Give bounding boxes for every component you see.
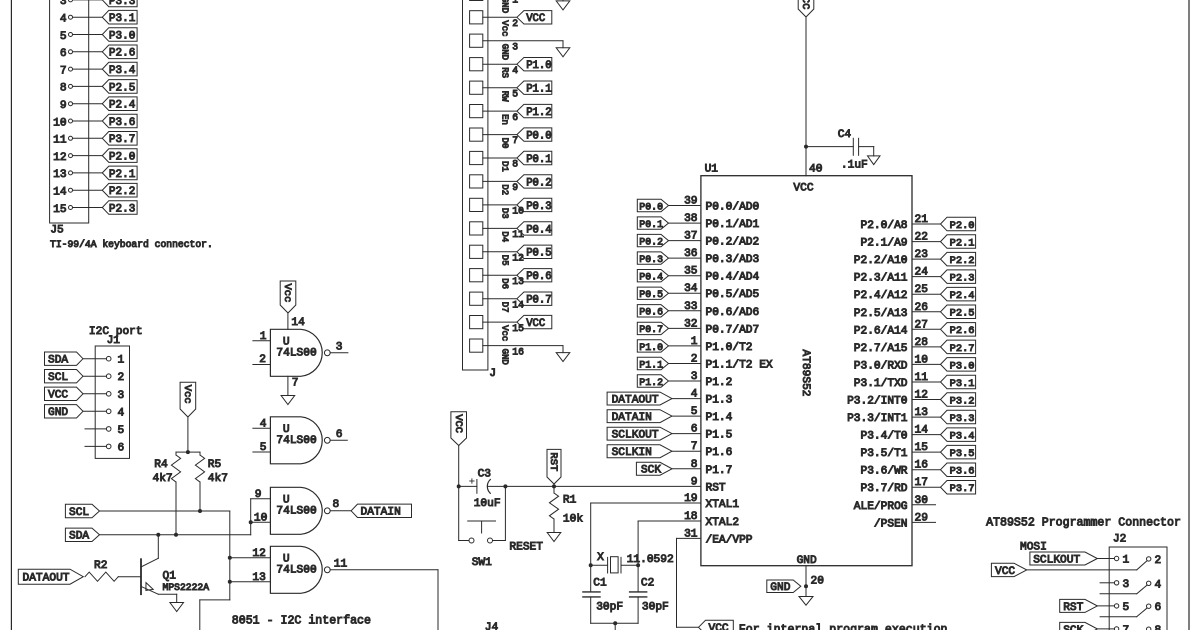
svg-text:P3.7: P3.7 xyxy=(109,134,135,146)
svg-text:3: 3 xyxy=(512,42,518,53)
svg-text:SCLKOUT: SCLKOUT xyxy=(1033,554,1080,566)
svg-text:6: 6 xyxy=(336,429,343,441)
svg-text:D6: D6 xyxy=(500,278,510,289)
U1 pin 10 (P3.0/RXD) xyxy=(854,354,941,372)
wire gate output pin 8 xyxy=(330,499,351,511)
svg-text:P2.7/A15: P2.7/A15 xyxy=(854,343,908,355)
node crystal left xyxy=(589,563,593,567)
J1 pin 6 stub wire xyxy=(85,442,124,454)
U1 pin 14 (P3.4/T0) xyxy=(861,425,941,443)
switch SW1 RESET xyxy=(459,486,544,569)
svg-text:40: 40 xyxy=(809,164,823,176)
svg-text:VCC: VCC xyxy=(48,390,68,402)
svg-text:U: U xyxy=(283,336,290,348)
svg-text:DATAOUT: DATAOUT xyxy=(23,573,70,585)
junction gate pins 9/10 xyxy=(249,520,253,524)
svg-text:P2.0/A8: P2.0/A8 xyxy=(861,220,908,232)
svg-text:8: 8 xyxy=(1155,625,1162,630)
wire gate pin 12 xyxy=(230,548,271,560)
net flag GND (pin 20) xyxy=(767,580,801,594)
net flag P2.6 (U1) xyxy=(941,323,976,338)
net flag DATAIN (U1 pin 5) xyxy=(607,410,701,424)
svg-text:Q1: Q1 xyxy=(163,570,177,582)
svg-text:6: 6 xyxy=(1155,602,1162,614)
J2 pin 5 with net flag RST xyxy=(1060,599,1130,614)
svg-text:.1uF: .1uF xyxy=(841,160,868,172)
svg-text:6: 6 xyxy=(512,112,518,123)
svg-text:VCC: VCC xyxy=(709,623,729,630)
wire gate pin 10 xyxy=(251,512,271,524)
net flag SDA xyxy=(65,528,99,543)
svg-text:11: 11 xyxy=(334,559,348,571)
svg-text:VCC: VCC xyxy=(799,0,811,9)
svg-text:P3.4: P3.4 xyxy=(950,431,975,443)
svg-text:10k: 10k xyxy=(563,514,583,526)
svg-text:P3.7/RD: P3.7/RD xyxy=(861,483,908,495)
net flag SCL xyxy=(65,504,99,519)
net flag P2.4 (U1) xyxy=(941,287,976,302)
label MOSI xyxy=(1020,542,1047,554)
U1 pin 17 (P3.7/RD) xyxy=(861,477,941,495)
svg-text:8: 8 xyxy=(512,159,518,170)
caption 8051 - I2C interface xyxy=(232,615,371,628)
svg-text:VCC: VCC xyxy=(526,13,545,25)
J3 pin 11 (D4) xyxy=(470,222,552,243)
wire SDA net xyxy=(100,522,251,535)
ground J3 pin 3 xyxy=(556,41,570,57)
wire VCC to RST rail xyxy=(458,446,460,487)
svg-text:XTAL1: XTAL1 xyxy=(706,499,740,511)
svg-text:11: 11 xyxy=(53,135,67,147)
svg-text:2: 2 xyxy=(512,18,518,29)
J3 pin 3 (GND) xyxy=(470,34,563,60)
U1 gate pin 1 stub xyxy=(253,331,271,343)
svg-text:RW: RW xyxy=(500,91,510,102)
J5 pin 12 with net flag P2.0 xyxy=(53,149,137,164)
junction C3/SW1 right xyxy=(503,484,507,488)
svg-text:74LS00: 74LS00 xyxy=(276,565,317,577)
svg-text:/EA/VPP: /EA/VPP xyxy=(706,534,753,546)
svg-text:RS: RS xyxy=(500,67,510,78)
caption AT89S52 Programmer Connector xyxy=(986,517,1181,530)
svg-text:SCLKIN: SCLKIN xyxy=(612,447,652,459)
J1 pin 5 stub wire xyxy=(85,425,124,437)
svg-text:4: 4 xyxy=(260,419,267,431)
svg-text:7: 7 xyxy=(512,135,518,146)
svg-text:2: 2 xyxy=(1155,555,1162,567)
U1 pin 33 (P0.6/AD6) xyxy=(669,301,760,319)
svg-text:/PSEN: /PSEN xyxy=(874,518,908,530)
net flag P0.4 (U1) xyxy=(637,270,668,283)
wire /EA/VPP net xyxy=(677,538,701,627)
U1 pin 1 (P1.0/T2) xyxy=(669,336,753,354)
wire pin 20 xyxy=(806,566,824,595)
svg-text:P0.7: P0.7 xyxy=(639,324,663,335)
J3 pin 5 (RW) xyxy=(470,81,552,102)
svg-text:4: 4 xyxy=(118,407,125,419)
label J1 xyxy=(107,335,121,347)
ground R1 xyxy=(547,530,561,542)
capacitor C3 10uF xyxy=(459,469,506,511)
svg-text:30pF: 30pF xyxy=(596,602,623,614)
J2 pin 6 xyxy=(1100,602,1161,617)
svg-text:SCK: SCK xyxy=(641,465,661,477)
net flag P3.0 (U1) xyxy=(941,358,976,373)
U1 pin 32 (P0.7/AD7) xyxy=(669,318,760,336)
connector J5 body xyxy=(50,0,89,223)
ground pin 20 xyxy=(799,595,813,606)
svg-text:P0.6: P0.6 xyxy=(639,307,663,318)
junction RST flag / R1 xyxy=(552,484,556,488)
net flag P2.0 (U1) xyxy=(941,217,976,232)
net flag DATAOUT xyxy=(18,569,83,584)
svg-text:P1.1: P1.1 xyxy=(639,359,663,370)
J5 pin 3 with net flag P3.3 xyxy=(60,0,137,8)
net flag P0.6 (U1) xyxy=(637,305,668,318)
svg-text:74LS00: 74LS00 xyxy=(276,435,317,447)
svg-text:1: 1 xyxy=(1123,555,1130,567)
svg-text:P2.1/A9: P2.1/A9 xyxy=(861,238,908,250)
svg-text:11.0592: 11.0592 xyxy=(627,554,674,566)
svg-text:VCC: VCC xyxy=(995,566,1015,578)
svg-text:C2: C2 xyxy=(641,578,654,590)
J5 pin 10 with net flag P3.6 xyxy=(53,114,137,129)
svg-text:P0.3/AD3: P0.3/AD3 xyxy=(706,254,760,266)
svg-text:5: 5 xyxy=(118,425,125,437)
wire RST rail to MCU pin 9 xyxy=(505,485,701,487)
svg-text:P3.3/INT1: P3.3/INT1 xyxy=(847,413,908,425)
svg-text:P2.6/A14: P2.6/A14 xyxy=(854,325,908,337)
net flag P2.7 (U1) xyxy=(941,340,976,355)
svg-text:14: 14 xyxy=(53,187,67,199)
svg-text:31: 31 xyxy=(684,528,698,540)
junction pin20/GND flag xyxy=(804,584,808,588)
net flag P3.1 (U1) xyxy=(941,375,976,390)
net flag P0.7 (U1) xyxy=(637,322,668,335)
svg-text:11: 11 xyxy=(512,229,524,240)
svg-text:U: U xyxy=(283,424,290,436)
J3 pin 8 (D1) xyxy=(470,151,552,172)
svg-text:R5: R5 xyxy=(208,459,221,471)
svg-text:DATAIN: DATAIN xyxy=(361,507,401,519)
junction SDA/R4 xyxy=(174,533,178,537)
svg-text:P2.4: P2.4 xyxy=(109,100,136,112)
wire pin 7 to ground xyxy=(288,376,299,395)
power flag Vcc (gate U pin 14) xyxy=(280,281,296,313)
U1 pin 24 (P2.3/A11) xyxy=(854,267,941,285)
net flag P3.5 (U1) xyxy=(941,445,976,460)
IC U1 AT89S52 body xyxy=(701,164,912,568)
svg-text:1: 1 xyxy=(260,331,267,343)
wire R5 bottom to SCL xyxy=(199,482,201,511)
U1 pin 4 (P1.3) xyxy=(691,389,733,407)
svg-text:RST: RST xyxy=(547,452,559,471)
svg-text:P3.7: P3.7 xyxy=(950,483,975,495)
crystal X 11.0592 xyxy=(591,552,674,573)
svg-text:P2.1: P2.1 xyxy=(109,169,136,181)
svg-text:P2.0: P2.0 xyxy=(950,220,975,232)
svg-text:Vcc: Vcc xyxy=(500,20,510,36)
svg-text:MPS2222A: MPS2222A xyxy=(163,582,210,593)
junction pin40/C4 xyxy=(804,145,808,149)
capacitor C2 30pF xyxy=(630,565,669,623)
svg-text:P3.6/WR: P3.6/WR xyxy=(861,466,908,478)
svg-text:1: 1 xyxy=(512,0,518,6)
svg-text:D7: D7 xyxy=(500,302,510,313)
svg-text:P1.7: P1.7 xyxy=(706,465,733,477)
capacitor C4 .1uF xyxy=(806,129,874,171)
svg-text:P0.6: P0.6 xyxy=(526,271,551,283)
svg-text:P1.5: P1.5 xyxy=(706,430,733,442)
svg-text:P0.3: P0.3 xyxy=(639,254,663,265)
svg-text:RESET: RESET xyxy=(509,542,543,554)
U1 pin 25 (P2.4/A12) xyxy=(854,284,941,302)
svg-text:D5: D5 xyxy=(500,255,510,266)
svg-text:1: 1 xyxy=(118,355,125,367)
wire Q1 emitter to ground xyxy=(158,594,176,602)
svg-text:3: 3 xyxy=(1123,579,1130,591)
svg-text:XTAL2: XTAL2 xyxy=(706,517,740,529)
svg-text:P3.1: P3.1 xyxy=(109,13,136,25)
net flag P3.6 (U1) xyxy=(941,463,976,478)
net flag VCC (/EA) xyxy=(699,620,734,630)
svg-text:P0.5: P0.5 xyxy=(526,248,551,260)
svg-text:5: 5 xyxy=(60,31,67,43)
svg-text:P2.6: P2.6 xyxy=(950,325,975,337)
svg-text:P0.0/AD0: P0.0/AD0 xyxy=(706,202,760,214)
svg-text:P3.3: P3.3 xyxy=(109,0,135,8)
svg-text:4: 4 xyxy=(1155,579,1162,591)
label J2 xyxy=(1113,534,1126,546)
label J5 xyxy=(50,225,63,237)
svg-text:J2: J2 xyxy=(1113,534,1126,546)
U1 gate pin 3 output stub xyxy=(330,341,348,353)
svg-text:P2.3/A11: P2.3/A11 xyxy=(854,273,908,285)
wire gate output pin 11 xyxy=(330,559,438,630)
J1 pin 3 with net flag VCC xyxy=(45,387,125,402)
U1 pin 28 (P2.7/A15) xyxy=(854,337,941,355)
svg-text:P0.1: P0.1 xyxy=(526,154,551,166)
connector J1 body xyxy=(95,346,129,458)
svg-text:P0.5: P0.5 xyxy=(639,289,663,300)
svg-text:P3.6: P3.6 xyxy=(950,466,975,478)
svg-text:D1: D1 xyxy=(500,161,510,172)
svg-text:5: 5 xyxy=(512,88,518,99)
resistor R4 4k7 xyxy=(153,452,188,485)
J5 pin 8 with net flag P2.5 xyxy=(60,80,137,95)
svg-text:P3.0/RXD: P3.0/RXD xyxy=(854,360,908,372)
sheet border right xyxy=(1188,0,1190,630)
wire pin 40 xyxy=(806,17,823,176)
gate pin 6 output stub xyxy=(330,429,347,441)
svg-text:P2.0: P2.0 xyxy=(109,152,135,164)
U1 pin 2 (P1.1/T2 EX) xyxy=(669,354,773,372)
U1 pin 9 (RST) xyxy=(691,476,726,494)
svg-text:SDA: SDA xyxy=(48,355,68,367)
J5 pin 15 with net flag P2.3 xyxy=(53,201,137,216)
U1 pin 36 (P0.3/AD3) xyxy=(669,248,760,266)
svg-text:P1.6: P1.6 xyxy=(706,447,733,459)
net flag SCK (U1 pin 8) xyxy=(636,462,701,476)
svg-text:13: 13 xyxy=(512,276,524,287)
svg-text:SDA: SDA xyxy=(69,531,89,543)
svg-text:AT89S52: AT89S52 xyxy=(799,350,811,397)
svg-text:4k7: 4k7 xyxy=(153,473,173,485)
svg-text:P3.0: P3.0 xyxy=(950,360,975,372)
svg-text:SCL: SCL xyxy=(69,507,89,519)
svg-text:P0.4: P0.4 xyxy=(526,224,551,236)
svg-text:P1.1/T2 EX: P1.1/T2 EX xyxy=(706,360,773,372)
net flag P1.2 (U1) xyxy=(637,375,668,388)
net flag P1.0 (U1) xyxy=(637,340,668,353)
wire Vcc to pin 14 xyxy=(288,313,305,329)
svg-text:SCLKOUT: SCLKOUT xyxy=(612,430,659,442)
svg-text:D3: D3 xyxy=(500,208,510,219)
svg-text:C1: C1 xyxy=(593,578,607,590)
svg-text:Vcc: Vcc xyxy=(500,325,510,341)
J5 pin 14 with net flag P2.2 xyxy=(53,183,137,198)
svg-text:3: 3 xyxy=(118,390,125,402)
svg-text:P0.1/AD1: P0.1/AD1 xyxy=(706,219,760,231)
svg-text:P0.4/AD4: P0.4/AD4 xyxy=(706,272,760,284)
svg-text:J5: J5 xyxy=(50,225,63,237)
svg-text:P0.7: P0.7 xyxy=(526,295,551,307)
svg-text:15: 15 xyxy=(512,323,524,334)
J3 pin 2 (Vcc) xyxy=(470,11,552,37)
svg-text:P0.0: P0.0 xyxy=(639,201,663,212)
caption I2C port xyxy=(89,326,143,338)
svg-text:13: 13 xyxy=(53,169,66,181)
svg-text:GND: GND xyxy=(797,555,817,567)
J5 pin 11 with net flag P3.7 xyxy=(53,132,137,147)
J5 pin 5 with net flag P3.0 xyxy=(60,28,137,43)
svg-text:P2.1: P2.1 xyxy=(950,238,975,250)
svg-text:P2.4: P2.4 xyxy=(950,290,975,302)
wire SCL net xyxy=(100,511,230,630)
svg-text:5: 5 xyxy=(260,442,267,454)
svg-text:P0.2/AD2: P0.2/AD2 xyxy=(706,237,760,249)
svg-text:J4: J4 xyxy=(485,622,499,630)
svg-text:10: 10 xyxy=(512,206,524,217)
svg-text:P1.0: P1.0 xyxy=(639,342,663,353)
caption for internal program execution xyxy=(739,624,948,630)
svg-text:SCK: SCK xyxy=(1063,625,1083,630)
svg-text:7: 7 xyxy=(1123,625,1130,630)
net flag P0.2 (U1) xyxy=(637,234,668,247)
net flag SCLKIN (U1 pin 7) xyxy=(607,445,701,459)
U1 pin 3 (P1.2) xyxy=(669,371,733,389)
svg-text:X: X xyxy=(597,552,604,564)
net flag P2.3 (U1) xyxy=(941,270,976,285)
U1 pin 34 (P0.5/AD5) xyxy=(669,283,760,301)
svg-text:P1.0: P1.0 xyxy=(526,60,551,72)
svg-text:U1: U1 xyxy=(705,164,719,176)
J3 pin 7 (D0) xyxy=(470,128,552,149)
node crystal right xyxy=(636,563,640,567)
J2 pin 1 with net flag SCLKOUT xyxy=(1030,552,1130,567)
svg-text:12: 12 xyxy=(53,152,66,164)
U1 pin 38 (P0.1/AD1) xyxy=(669,213,760,231)
resistor R1 10k xyxy=(549,486,583,530)
junction caps common xyxy=(613,621,617,625)
svg-text:20: 20 xyxy=(811,576,825,588)
svg-text:15: 15 xyxy=(53,204,66,216)
svg-text:DATAOUT: DATAOUT xyxy=(612,394,659,406)
svg-text:P0.1: P0.1 xyxy=(639,219,663,230)
U1 pin 31 (/EA/VPP) xyxy=(684,528,753,546)
svg-text:P1.4: P1.4 xyxy=(706,412,733,424)
wire XTAL1 net xyxy=(591,503,701,565)
U1 pin 37 (P0.2/AD2) xyxy=(669,231,760,249)
U1 pin 6 (P1.5) xyxy=(691,424,733,442)
svg-text:En: En xyxy=(500,114,510,125)
net flag P0.5 (U1) xyxy=(637,287,668,300)
svg-text:P0.2: P0.2 xyxy=(526,177,551,189)
J3 pin 14 (D7) xyxy=(470,292,552,313)
connector J2 body xyxy=(1109,547,1167,630)
svg-text:P0.7/AD7: P0.7/AD7 xyxy=(706,324,760,336)
svg-text:8: 8 xyxy=(333,499,340,511)
U1 gate pin 2 stub xyxy=(253,354,271,366)
svg-text:P2.4/A12: P2.4/A12 xyxy=(854,290,908,302)
wire VCC to R4/R5 junction xyxy=(187,417,189,452)
junction SCL/R5 xyxy=(198,509,202,513)
J3 pin 15 (Vcc) xyxy=(470,315,552,341)
svg-text:P0.5/AD5: P0.5/AD5 xyxy=(706,289,760,301)
svg-text:P3.4/T0: P3.4/T0 xyxy=(861,431,908,443)
svg-text:4: 4 xyxy=(512,65,518,76)
U1 pin 16 (P3.6/WR) xyxy=(861,460,941,478)
svg-text:9: 9 xyxy=(691,476,698,488)
svg-text:TI-99/4A keyboard connector.: TI-99/4A keyboard connector. xyxy=(50,239,213,250)
U1 pin 7 (P1.6) xyxy=(691,441,733,459)
svg-text:P3.6: P3.6 xyxy=(109,117,135,129)
junction node R4/R5 top xyxy=(186,450,190,454)
U1 pin 18 (XTAL2) xyxy=(684,511,739,529)
svg-text:P3.1/TXD: P3.1/TXD xyxy=(854,378,908,390)
svg-text:P2.5: P2.5 xyxy=(109,82,135,94)
svg-text:GND: GND xyxy=(500,349,510,365)
svg-text:P3.1: P3.1 xyxy=(950,378,975,390)
net flag DATAOUT (U1 pin 4) xyxy=(607,392,701,406)
J3 pin 12 (D5) xyxy=(470,245,552,266)
svg-text:4: 4 xyxy=(60,14,67,26)
svg-text:VCC: VCC xyxy=(526,318,545,330)
J3 pin 16 (GND) xyxy=(470,339,563,365)
U1 pin 39 (P0.0/AD0) xyxy=(669,196,760,214)
svg-text:9: 9 xyxy=(512,182,518,193)
J2 pin 8 xyxy=(1147,625,1162,630)
svg-text:7: 7 xyxy=(292,378,299,390)
net flag P2.2 (U1) xyxy=(941,252,976,267)
svg-text:P3.4: P3.4 xyxy=(109,65,136,77)
svg-text:P1.2: P1.2 xyxy=(526,107,551,119)
svg-text:GND: GND xyxy=(500,0,510,13)
wire XTAL2 net xyxy=(638,521,701,565)
svg-text:D2: D2 xyxy=(500,184,510,195)
net flag DATAIN (gate output) xyxy=(351,504,411,519)
svg-text:6: 6 xyxy=(60,48,67,60)
J1 pin 4 with net flag GND xyxy=(45,405,125,420)
svg-text:74LS00: 74LS00 xyxy=(276,348,317,360)
J3 pin 9 (D2) xyxy=(470,175,552,195)
net flag P3.7 (U1) xyxy=(941,481,976,496)
svg-text:SCL: SCL xyxy=(48,372,68,384)
svg-text:P3.3: P3.3 xyxy=(950,413,975,425)
svg-text:19: 19 xyxy=(684,493,697,505)
svg-text:P2.2/A10: P2.2/A10 xyxy=(854,255,908,267)
svg-text:DATAIN: DATAIN xyxy=(612,412,652,424)
